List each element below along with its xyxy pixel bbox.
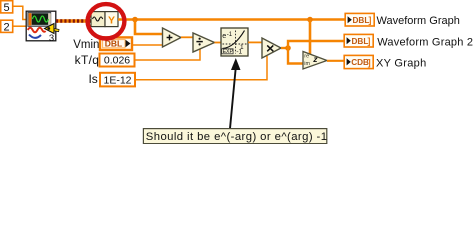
svg-text:re: re <box>304 53 309 59</box>
wire drop to re input <box>309 20 312 55</box>
numeric constant 0.026 <box>100 54 135 67</box>
svg-text:CDB: CDB <box>351 58 369 67</box>
svg-text:Waveform Graph: Waveform Graph <box>377 15 460 27</box>
wire divide to exp <box>215 42 222 44</box>
svg-text:e: e <box>222 31 226 40</box>
svg-text:Y: Y <box>108 14 115 26</box>
svg-text:Is: Is <box>88 72 97 86</box>
svg-text:0.026: 0.026 <box>104 55 130 67</box>
indicator terminal Waveform Graph (DBL array) <box>345 13 374 26</box>
Re/Im to Complex function <box>303 52 327 70</box>
svg-text:1E-12: 1E-12 <box>103 74 131 86</box>
subVI icon (function generator, label 3) <box>26 11 59 44</box>
multiply function x <box>262 38 281 58</box>
junction node A <box>132 17 138 23</box>
svg-text:Vmin: Vmin <box>73 39 99 51</box>
junction node C <box>285 45 291 51</box>
annotation comment box <box>143 129 327 144</box>
annotation arrow head <box>231 58 241 70</box>
wire 1E-12 to multiply lower input <box>135 56 267 80</box>
svg-text:Waveform Graph 2: Waveform Graph 2 <box>377 36 473 48</box>
indicator terminal Waveform Graph 2 (DBL array) <box>344 34 373 47</box>
svg-text:]: ] <box>368 57 371 67</box>
svg-text:2: 2 <box>4 21 10 33</box>
Y array wire (top run to Waveform Graph) <box>118 18 345 21</box>
divide function <box>193 33 215 52</box>
exp(x)-1 function icon U1 <box>221 28 248 56</box>
svg-text:-1: -1 <box>227 32 233 38</box>
svg-text:]: ] <box>368 36 371 46</box>
add function + <box>163 28 182 47</box>
wire branch down to add input <box>135 20 163 35</box>
Get Waveform Components icon (Y) <box>91 12 118 27</box>
wire from constant 5 to subVI input <box>13 6 27 19</box>
svg-text:]: ] <box>369 15 372 25</box>
numeric constant 2 <box>1 20 13 33</box>
wire z output to XY Graph <box>327 60 344 62</box>
wire branch down to im input <box>288 48 303 64</box>
svg-text:3: 3 <box>49 33 54 44</box>
svg-text:EXP: EXP <box>223 49 234 55</box>
wire 0.026 to divide lower input <box>135 47 200 60</box>
svg-text:XY Graph: XY Graph <box>376 58 427 70</box>
wire branch up to Waveform Graph 2 <box>288 41 344 48</box>
junction node B (re drop) <box>307 17 313 23</box>
indicator terminal XY Graph (CDB) <box>344 55 373 68</box>
svg-text:z: z <box>312 54 318 64</box>
wire Vmin to add lower input <box>133 44 163 46</box>
svg-text:5: 5 <box>4 2 10 14</box>
wire from constant 2 to subVI input <box>13 25 27 27</box>
numeric constant 5 <box>1 1 13 14</box>
wire add to divide <box>181 36 193 38</box>
multiply output wire to junction C <box>281 47 288 49</box>
svg-text:Should it be e^(-arg) or e^(ar: Should it be e^(-arg) or e^(arg) -1 <box>146 131 328 143</box>
Vmin DBL indicator terminal <box>100 37 132 50</box>
svg-text:kT/q: kT/q <box>75 53 100 67</box>
red circle annotation around Get Waveform Components <box>88 4 125 38</box>
waveform wire (dashed brown) from subVI to Get Waveform Components <box>56 19 91 22</box>
numeric constant 1E-12 <box>100 73 135 87</box>
wire exp to multiply <box>248 41 262 43</box>
annotation arrow line <box>230 65 236 129</box>
svg-text:DBL: DBL <box>352 37 369 46</box>
svg-text:im: im <box>304 61 310 67</box>
svg-text:DBL: DBL <box>353 16 370 25</box>
svg-text:-1: -1 <box>236 49 242 56</box>
